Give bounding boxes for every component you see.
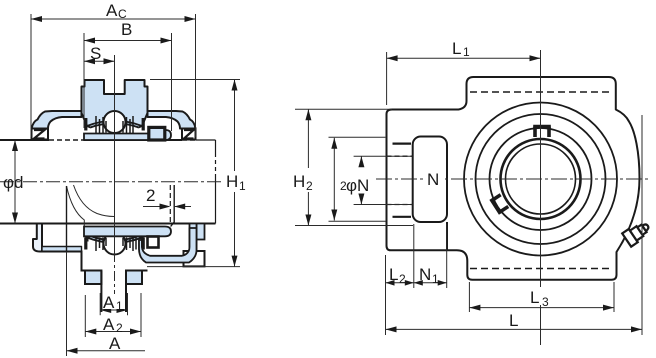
upper seal hatches right [123, 116, 133, 133]
frame slot edge right solid [171, 185, 175, 227]
housing cavity curve inner [74, 185, 115, 217]
frame body outline [387, 77, 640, 280]
svg-text:φN: φN [346, 176, 369, 195]
threaded stem [101, 271, 126, 313]
svg-text:A: A [103, 315, 115, 334]
left arm upper [32, 111, 82, 129]
dimension B [84, 20, 172, 131]
svg-text:φd: φd [3, 173, 23, 192]
frame right foot lower [184, 251, 205, 266]
seat locating notch top [533, 127, 551, 138]
horizontal centerline [376, 178, 650, 180]
inner ring circle [506, 144, 576, 214]
svg-text:B: B [121, 20, 132, 39]
shaft band [0, 140, 216, 224]
lower seal bar right [142, 238, 145, 250]
node N label [423, 167, 443, 188]
svg-text:L: L [509, 311, 518, 330]
upper seat inner white [91, 123, 139, 133]
frame web lower left [42, 247, 82, 252]
svg-text:3: 3 [542, 295, 549, 309]
upper inner ring band [84, 134, 160, 141]
hidden slot top edge [470, 91, 612, 93]
hole 1 visible edge [393, 143, 412, 145]
upper set screw block [149, 127, 165, 140]
dimension 2 (slot clearance) [143, 186, 191, 210]
upper spherical seat ring segment [87, 121, 142, 128]
grease nipple [622, 219, 652, 247]
right slinger seal [184, 130, 194, 139]
svg-text:N: N [419, 265, 431, 284]
frame slot edge right hidden [169, 185, 171, 223]
svg-text:L: L [530, 288, 539, 307]
upper seal bar left [84, 118, 87, 131]
hole 1 hidden edge [387, 155, 413, 157]
dimension L_2 [386, 224, 414, 335]
lower seal hatches right [123, 238, 133, 252]
lower cartridge side stubs [87, 236, 89, 241]
lower seat inner white [91, 236, 139, 240]
dimension A_C [31, 1, 196, 137]
seat locating notch lower-left [491, 193, 509, 213]
dimension H_2 [293, 109, 413, 225]
upper seal bar right [142, 118, 145, 131]
upper cartridge blue body [82, 80, 148, 126]
svg-text:S: S [90, 44, 101, 63]
right arm upper [148, 111, 196, 129]
outer ring face circle [490, 128, 592, 230]
upper lock collar [158, 130, 171, 140]
dimension A_1 [100, 293, 127, 315]
svg-text:N: N [427, 170, 439, 189]
dimension N_1 [414, 224, 447, 288]
stem boss left [85, 271, 101, 285]
svg-text:A: A [106, 1, 118, 20]
stem centerline [114, 252, 116, 296]
svg-text:1: 1 [463, 45, 470, 59]
dimension 2-phi-N [340, 156, 413, 204]
N slot block [413, 137, 447, 223]
svg-text:2: 2 [306, 179, 313, 193]
lower ball [104, 233, 126, 255]
left slinger seal [34, 130, 45, 139]
dimension S [84, 44, 115, 64]
svg-text:H: H [226, 172, 238, 191]
upper seal hatches left [96, 116, 106, 133]
frame bottom left profile [42, 252, 101, 271]
frame right wall lower [190, 224, 197, 251]
frame bottom right ledge [126, 270, 148, 272]
dimension L_1 [387, 39, 541, 105]
left foot [32, 129, 49, 140]
lower seal bar left [84, 238, 87, 250]
frame web lower right [139, 228, 197, 263]
svg-text:A: A [103, 293, 115, 312]
vertical centerline upper [114, 55, 116, 252]
frame slot edge left [66, 186, 68, 252]
hole 2 hidden edge [387, 204, 413, 206]
dimension slot height [329, 137, 387, 221]
svg-text:2: 2 [399, 272, 406, 286]
lower inner ring band [84, 227, 171, 237]
dimension L_3 [469, 282, 614, 312]
vertical centerline [540, 50, 542, 345]
svg-text:C: C [118, 7, 127, 21]
right foot [182, 129, 196, 140]
bearing seat circle [476, 114, 606, 244]
svg-text:L: L [389, 265, 398, 284]
lower spherical seat ring segment [87, 236, 142, 243]
lower seal hatches left [96, 238, 106, 252]
frame slot inner edge [446, 222, 448, 250]
svg-text:1: 1 [239, 179, 246, 193]
dimension phi-d [3, 140, 23, 224]
frame right wall outer step [197, 224, 205, 240]
hidden slot bottom edge [470, 268, 612, 270]
lower seal carrier lines [135, 236, 137, 249]
bore circle [501, 139, 581, 219]
dimension A [67, 252, 146, 357]
shaft centerline [0, 181, 243, 183]
svg-text:1: 1 [116, 299, 123, 313]
dimension L [386, 115, 643, 335]
hole 2 visible edge [393, 216, 412, 218]
svg-text:2: 2 [146, 186, 155, 205]
svg-text:2: 2 [116, 321, 123, 335]
dimension H_1 [147, 80, 249, 267]
bearing housing outer circle [464, 103, 617, 256]
svg-text:A: A [109, 334, 121, 353]
svg-text:1: 1 [432, 272, 439, 286]
dimension A_2 [85, 293, 141, 337]
frame left wall lower [33, 224, 42, 252]
lower set screw block [148, 237, 159, 248]
upper ball [104, 111, 126, 133]
stem boss right [126, 271, 142, 285]
svg-text:L: L [452, 39, 461, 58]
housing cavity curve outer [67, 186, 85, 227]
svg-text:H: H [293, 172, 305, 191]
